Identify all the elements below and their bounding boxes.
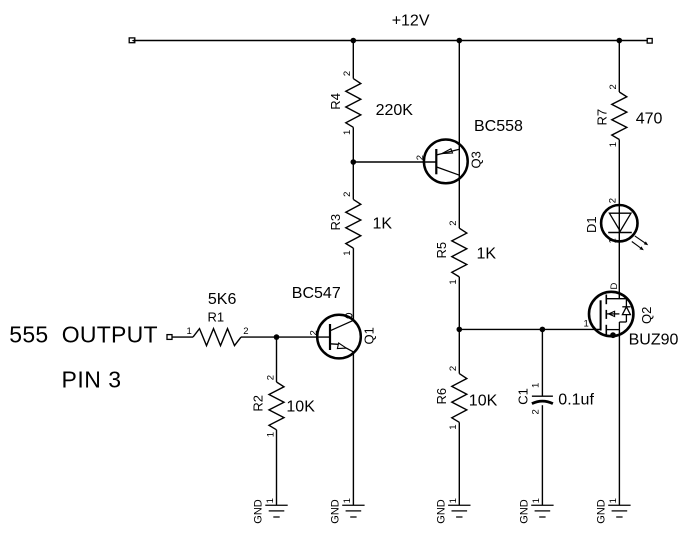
svg-text:Q1: Q1 — [362, 327, 377, 344]
svg-text:10K: 10K — [469, 392, 498, 409]
svg-text:2: 2 — [448, 220, 459, 225]
ground under R2 — [265, 505, 287, 517]
svg-text:GND: GND — [253, 499, 265, 524]
svg-text:1: 1 — [342, 130, 353, 135]
svg-text:1: 1 — [448, 279, 459, 284]
wire R2 to GND — [276, 430, 278, 505]
svg-text:555 OUTPUT: 555 OUTPUT — [9, 322, 157, 348]
svg-text:5K6: 5K6 — [208, 291, 237, 308]
svg-text:1K: 1K — [373, 216, 393, 233]
svg-text:2: 2 — [342, 192, 353, 197]
svg-text:1: 1 — [448, 498, 459, 503]
wire +12V rail — [135, 40, 647, 42]
svg-text:+12V: +12V — [392, 13, 430, 30]
svg-text:2: 2 — [608, 198, 619, 203]
junction node B1 — [351, 159, 357, 165]
svg-text:10K: 10K — [286, 399, 315, 416]
wire R3 to Q1 collector — [352, 248, 354, 320]
wire Q2 source to GND — [618, 330, 620, 506]
D1 emission arrow 2 — [632, 242, 644, 251]
wire rail to R4 — [352, 41, 354, 79]
svg-text:1: 1 — [265, 498, 276, 503]
resistor R5 — [452, 228, 467, 277]
svg-text:2: 2 — [531, 409, 542, 414]
wire pad to R1 — [172, 336, 193, 338]
terminal pad right — [647, 39, 652, 44]
svg-text:BC558: BC558 — [474, 118, 523, 135]
junction node A (R1/R2/Q1) — [274, 334, 280, 340]
svg-text:R3: R3 — [328, 214, 343, 231]
svg-text:1: 1 — [266, 432, 277, 437]
MOSFET Q2 BUZ90 — [589, 292, 633, 336]
wire node B1 to Q3 base — [353, 161, 436, 163]
svg-text:Q2: Q2 — [639, 307, 654, 324]
wire Q1 emitter to GND — [352, 352, 354, 505]
svg-text:BUZ90: BUZ90 — [629, 332, 679, 349]
svg-text:PIN 3: PIN 3 — [62, 367, 122, 393]
svg-text:1: 1 — [531, 383, 542, 388]
wire R6 to GND — [458, 422, 460, 505]
junction node C (R5/R6/gate) — [457, 327, 463, 333]
wire node C to C1 — [541, 329, 543, 396]
svg-text:C1: C1 — [516, 388, 531, 405]
wire R1 to Q1 base — [241, 336, 330, 338]
wire node A to R2 — [276, 337, 278, 382]
resistor R4 — [346, 79, 361, 128]
junction rail/Q3 emitter — [457, 38, 463, 44]
svg-text:GND: GND — [519, 499, 531, 524]
svg-text:1: 1 — [448, 425, 459, 430]
svg-text:2: 2 — [608, 84, 619, 89]
ground under Q1 — [342, 505, 364, 517]
svg-text:1: 1 — [342, 498, 353, 503]
svg-text:1: 1 — [531, 498, 542, 503]
wire R5 to node C — [458, 277, 460, 330]
terminal pad left — [129, 38, 135, 43]
junction rail/R7 — [617, 38, 623, 44]
svg-text:2: 2 — [415, 155, 426, 160]
wire rail to R7 — [618, 41, 620, 93]
resistor R7 — [612, 92, 627, 140]
svg-text:0.1uf: 0.1uf — [558, 392, 594, 409]
svg-text:1: 1 — [187, 326, 192, 337]
wire rail through Q3 to R5 — [458, 41, 460, 229]
svg-text:1: 1 — [608, 498, 619, 503]
svg-text:2: 2 — [243, 326, 248, 337]
wire C1 to GND — [541, 405, 543, 505]
junction rail/R4 — [351, 38, 357, 44]
ground under Q2 — [608, 505, 630, 517]
ground under R6 — [448, 505, 470, 517]
svg-text:2: 2 — [266, 375, 277, 380]
svg-text:R1: R1 — [208, 310, 225, 325]
wire node B1 to R3 — [352, 162, 354, 199]
wire node C to R6 — [458, 329, 460, 373]
svg-text:R5: R5 — [434, 242, 449, 259]
svg-text:1: 1 — [608, 142, 619, 147]
transistor Q3 BC558 (PNP) — [424, 140, 468, 184]
capacitor C1 top plate — [532, 395, 553, 397]
svg-text:D1: D1 — [584, 216, 599, 233]
ground under C1 — [531, 505, 553, 517]
svg-text:1: 1 — [584, 318, 589, 329]
junction node C/C1 — [540, 327, 546, 333]
resistor R6 — [452, 374, 467, 423]
LED D1 — [601, 205, 637, 241]
resistor R3 — [346, 199, 361, 248]
svg-text:1: 1 — [342, 251, 353, 256]
D1 emission arrow 1 — [635, 236, 648, 245]
transistor Q1 BC547 (NPN) — [317, 313, 361, 358]
svg-text:R6: R6 — [434, 388, 449, 405]
svg-text:1: 1 — [608, 238, 619, 243]
resistor R2 — [269, 382, 284, 430]
svg-text:2: 2 — [448, 366, 459, 371]
wire R4 to node B1 — [352, 127, 354, 162]
svg-text:GND: GND — [435, 499, 447, 524]
svg-text:470: 470 — [636, 111, 663, 128]
svg-text:220K: 220K — [376, 102, 414, 119]
svg-text:R2: R2 — [251, 395, 266, 412]
svg-text:GND: GND — [330, 499, 342, 524]
wire node C to Q2 gate — [459, 328, 600, 330]
svg-text:2: 2 — [309, 330, 320, 335]
svg-text:2: 2 — [342, 71, 353, 76]
svg-text:BC547: BC547 — [292, 285, 341, 302]
svg-text:R7: R7 — [594, 109, 609, 126]
svg-text:Q3: Q3 — [469, 151, 484, 168]
junction Q2 source dot — [610, 332, 616, 338]
svg-text:GND: GND — [596, 499, 608, 524]
svg-text:D: D — [609, 283, 620, 290]
resistor R1 — [193, 329, 241, 346]
svg-text:R4: R4 — [328, 93, 343, 110]
capacitor C1 bottom plate — [532, 401, 553, 404]
wire R7 to D1 — [618, 140, 620, 299]
svg-text:1K: 1K — [477, 245, 497, 262]
terminal pad 555 output — [167, 335, 172, 340]
